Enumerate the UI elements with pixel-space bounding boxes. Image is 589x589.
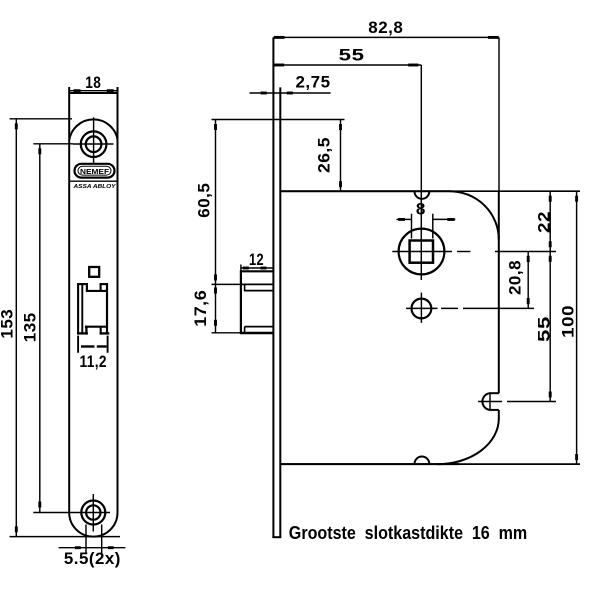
svg-text:153: 153	[0, 309, 17, 339]
top screw crosshair	[73, 143, 114, 145]
svg-text:2,75: 2,75	[296, 72, 331, 91]
faceplate top edge	[68, 92, 118, 94]
top screw hole	[81, 131, 107, 157]
svg-text:60,5: 60,5	[195, 183, 214, 218]
svg-text:11,2: 11,2	[79, 352, 107, 371]
svg-text:NEMEF: NEMEF	[80, 167, 109, 176]
spindle square	[410, 241, 433, 263]
bottom screw crosshair	[92, 494, 94, 532]
top notch	[415, 192, 430, 199]
svg-text:5.5(2x): 5.5(2x)	[64, 549, 121, 568]
latch bolt side view	[240, 270, 273, 334]
svg-text:8: 8	[416, 200, 426, 219]
dim 2,75	[250, 92, 331, 94]
svg-text:ASSA ABLOY: ASSA ABLOY	[72, 184, 117, 190]
small circle crosshair	[406, 307, 438, 309]
svg-text:100: 100	[559, 305, 578, 338]
case top edge + right extension	[280, 190, 580, 192]
case bottom edge + right extension	[280, 463, 580, 465]
dim 26,5	[212, 119, 345, 121]
svg-text:22: 22	[535, 211, 554, 233]
svg-text:26,5: 26,5	[314, 137, 333, 173]
right side notch	[482, 393, 490, 410]
case right edge (lower)	[498, 410, 500, 420]
spindle hub circle	[399, 229, 445, 275]
bottom notch	[415, 457, 430, 464]
strip bottom cap	[272, 536, 281, 538]
dim 11,2	[77, 336, 79, 353]
faceplate side strip back line	[279, 87, 281, 537]
dim 20,8	[527, 252, 529, 309]
svg-text:18: 18	[85, 73, 101, 92]
dim 135	[33, 143, 73, 145]
faceplate rounded inner cap arc	[69, 119, 117, 139]
dim 100	[576, 191, 578, 464]
dim 55 right	[549, 252, 551, 402]
svg-text:135: 135	[21, 312, 40, 342]
dim 8	[411, 214, 413, 239]
key hole small circle	[412, 299, 432, 319]
latch bolt front view	[77, 283, 109, 335]
dim 5.5(2x)	[85, 525, 87, 555]
dim 153	[10, 118, 73, 120]
dim 22	[549, 191, 551, 251]
faceplate outline	[69, 87, 117, 537]
case right edge (upper, with 82.8 extension above)	[498, 37, 500, 191]
spindle crosshair	[392, 251, 452, 253]
faceplate seam line	[69, 180, 117, 182]
svg-text:82,8: 82,8	[368, 18, 403, 37]
top-right corner arc	[450, 191, 499, 239]
dim 82,8	[273, 36, 499, 38]
bottom-right corner arc	[438, 419, 499, 465]
svg-text:55: 55	[535, 316, 554, 342]
dim 55 top	[273, 64, 421, 66]
NEMEF logo	[75, 164, 115, 178]
square follower hole	[89, 267, 99, 277]
dim 17,6	[212, 283, 241, 285]
faceplate side strip front line	[272, 37, 274, 537]
dim 12	[240, 265, 242, 271]
svg-text:20,8: 20,8	[506, 260, 525, 295]
svg-text:17,6: 17,6	[191, 290, 210, 327]
svg-text:Grootste slotkastdikte 16 mm: Grootste slotkastdikte 16 mm	[289, 522, 527, 543]
dim 60,5	[215, 120, 217, 285]
bottom screw hole	[81, 501, 105, 525]
dim 18	[69, 90, 117, 92]
svg-text:55: 55	[339, 46, 365, 65]
svg-text:12: 12	[249, 250, 264, 269]
